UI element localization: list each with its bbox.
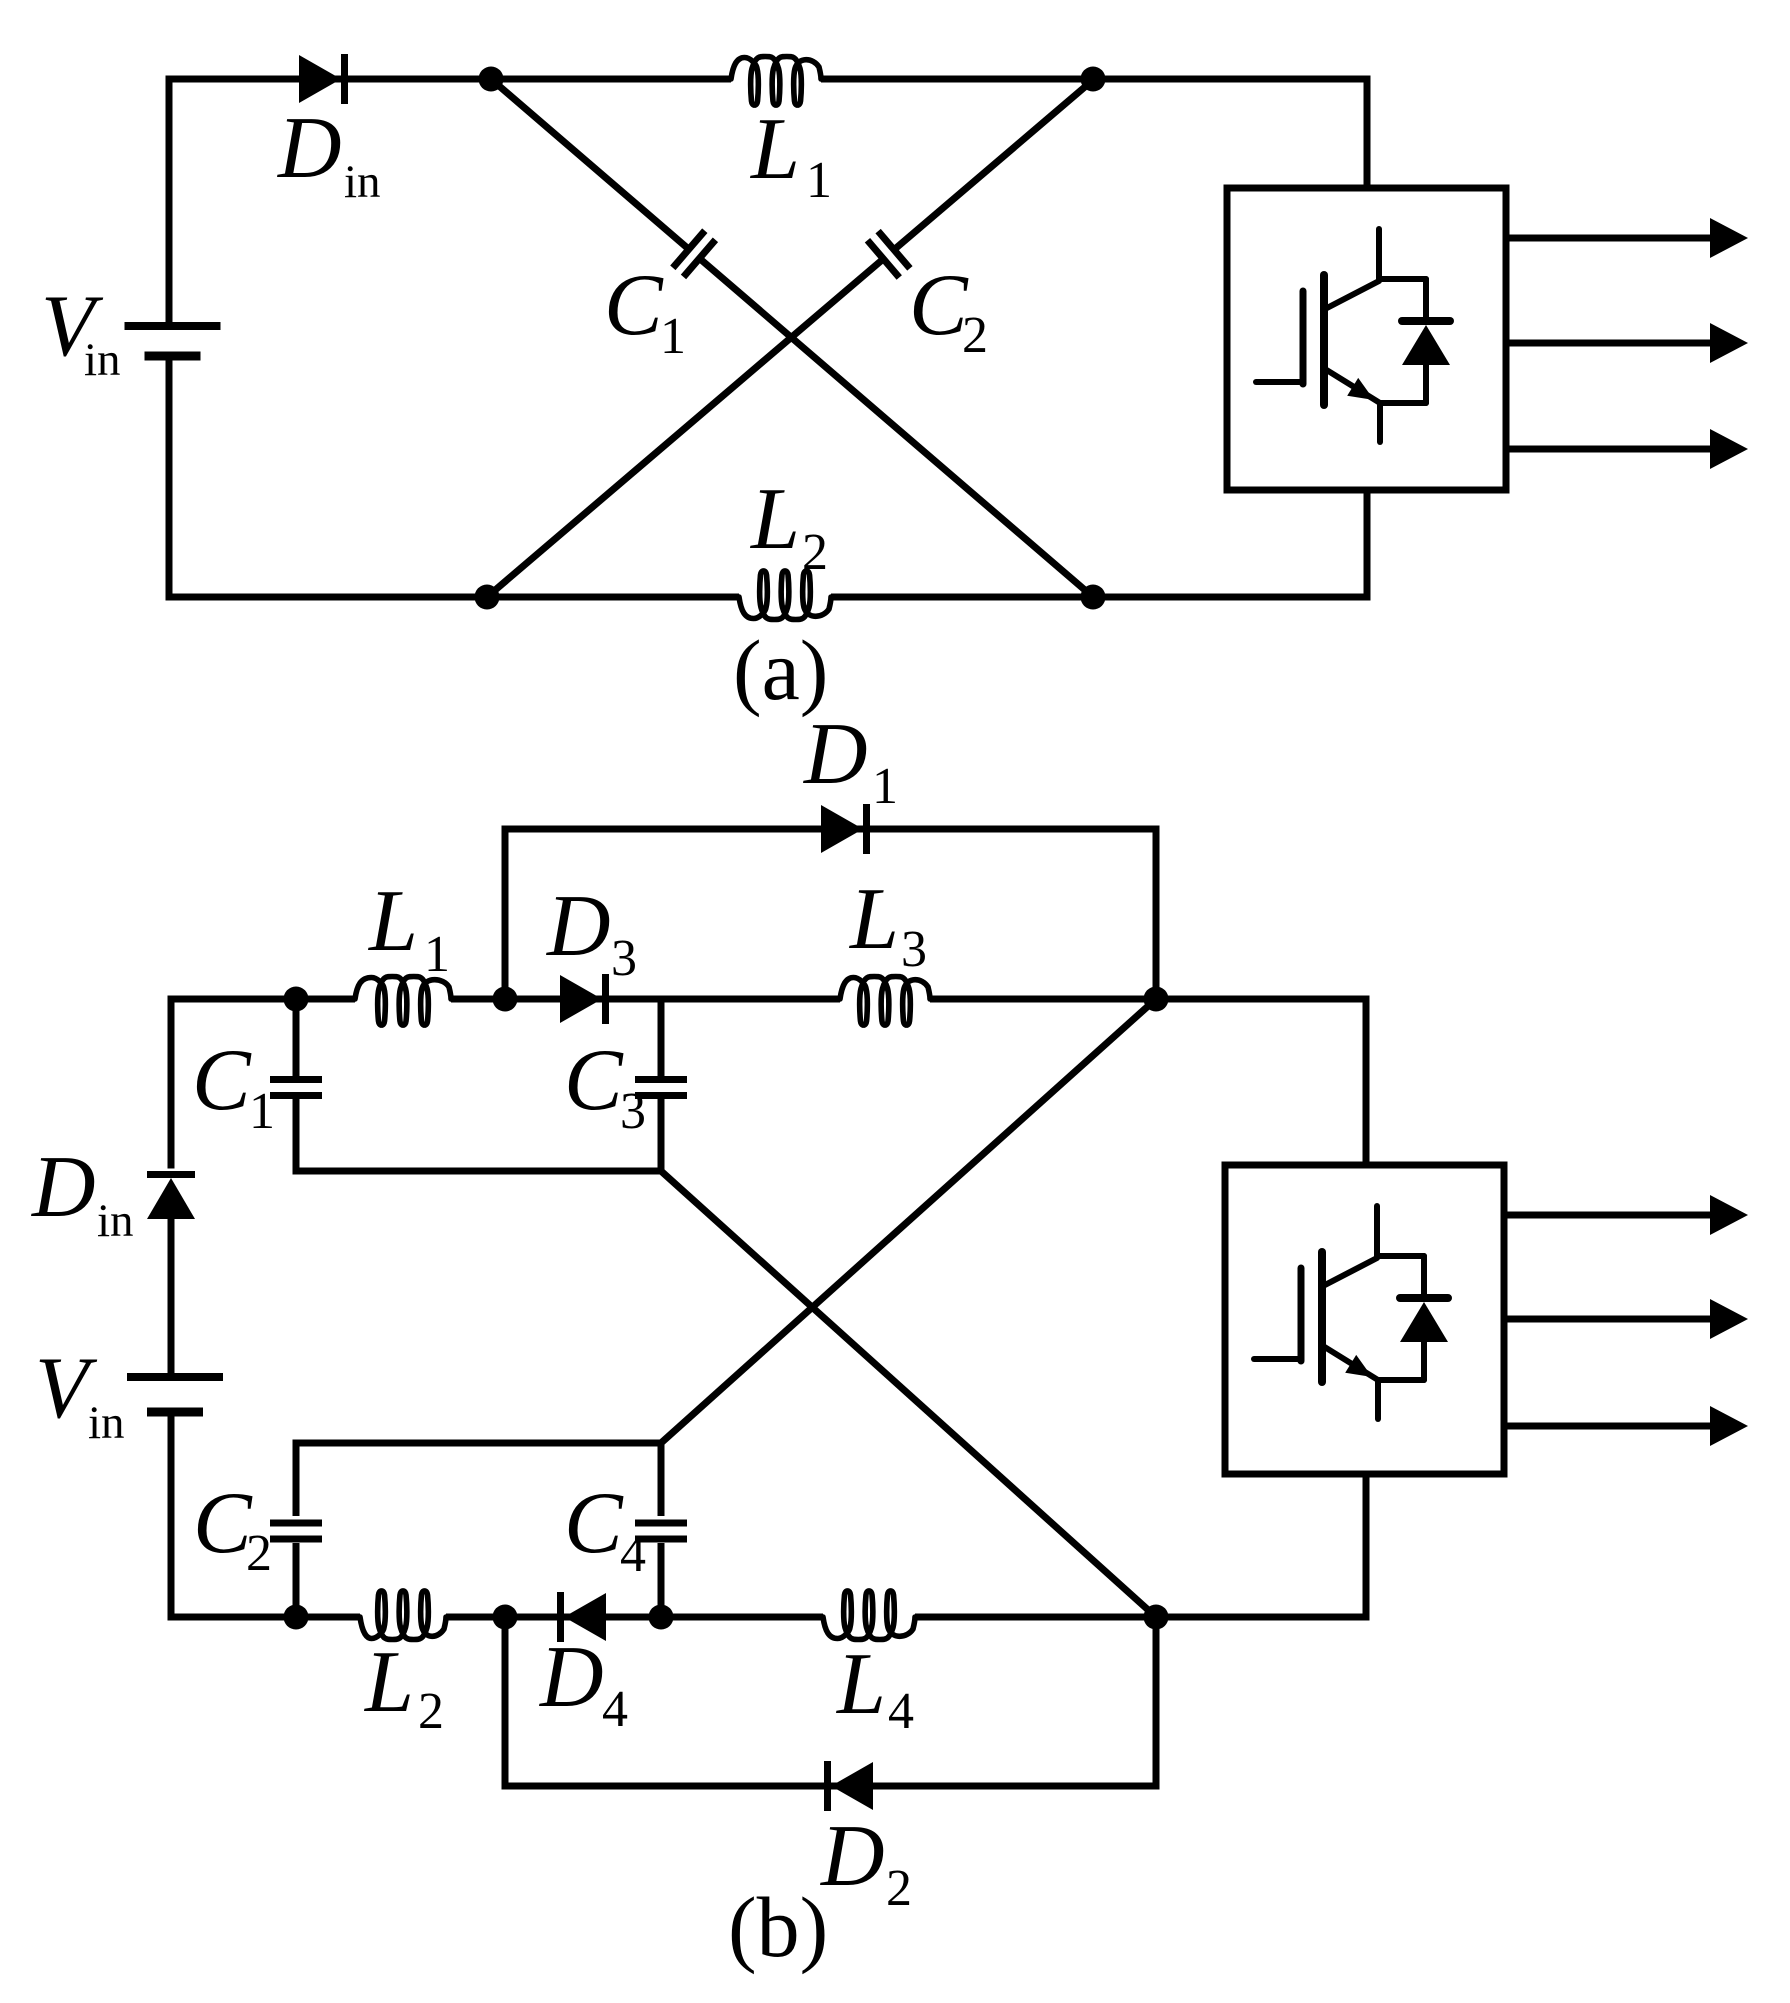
svg-text:L: L [835, 1636, 886, 1733]
svg-text:2: 2 [802, 524, 828, 581]
svg-text:1: 1 [249, 1083, 275, 1140]
svg-text:3: 3 [611, 930, 637, 987]
svg-text:D: D [31, 1139, 96, 1236]
svg-text:L: L [749, 471, 800, 568]
svg-text:3: 3 [620, 1083, 646, 1140]
svg-text:in: in [84, 334, 121, 386]
svg-text:C: C [564, 1032, 624, 1129]
svg-text:1: 1 [806, 152, 832, 209]
svg-text:2: 2 [886, 1860, 912, 1917]
svg-text:C: C [193, 1475, 253, 1572]
svg-text:4: 4 [620, 1526, 646, 1583]
svg-text:(b): (b) [728, 1879, 828, 1975]
svg-text:3: 3 [901, 921, 927, 978]
svg-text:D: D [539, 1629, 604, 1726]
svg-text:C: C [604, 257, 664, 354]
svg-text:1: 1 [660, 308, 686, 365]
svg-text:in: in [97, 1195, 134, 1247]
svg-text:4: 4 [888, 1683, 914, 1740]
svg-text:L: L [848, 871, 899, 968]
svg-text:C: C [192, 1032, 252, 1129]
svg-text:2: 2 [418, 1683, 444, 1740]
svg-text:2: 2 [246, 1525, 272, 1582]
svg-text:L: L [367, 873, 418, 970]
svg-text:D: D [546, 878, 611, 975]
svg-text:1: 1 [424, 926, 450, 983]
svg-text:in: in [344, 156, 381, 208]
svg-text:L: L [363, 1634, 414, 1731]
svg-text:1: 1 [872, 758, 898, 815]
svg-text:2: 2 [962, 307, 988, 364]
svg-text:4: 4 [602, 1681, 628, 1738]
svg-text:C: C [564, 1475, 624, 1572]
svg-text:in: in [88, 1397, 125, 1449]
svg-text:C: C [909, 257, 969, 354]
svg-text:D: D [820, 1808, 885, 1905]
svg-text:L: L [749, 101, 800, 198]
svg-text:D: D [277, 100, 342, 197]
svg-text:(a): (a) [733, 622, 828, 718]
svg-text:D: D [803, 706, 868, 803]
